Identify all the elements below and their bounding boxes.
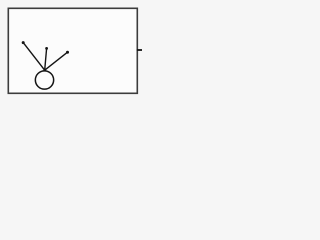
- symbol body box: [8, 8, 137, 93]
- circle body (lamp/junction circle): [35, 71, 53, 89]
- junction node at circle top: [43, 69, 46, 72]
- terminal dot of W2: [45, 47, 48, 50]
- terminal dot of W1: [22, 41, 25, 44]
- pin P1 stub on right edge: [137, 49, 142, 51]
- terminal dot of W3: [66, 51, 69, 54]
- wire W2 (middle, near vertical): [45, 48, 47, 70]
- wire W1 (upper-left): [23, 43, 45, 71]
- wire W3 (upper-right): [45, 52, 68, 70]
